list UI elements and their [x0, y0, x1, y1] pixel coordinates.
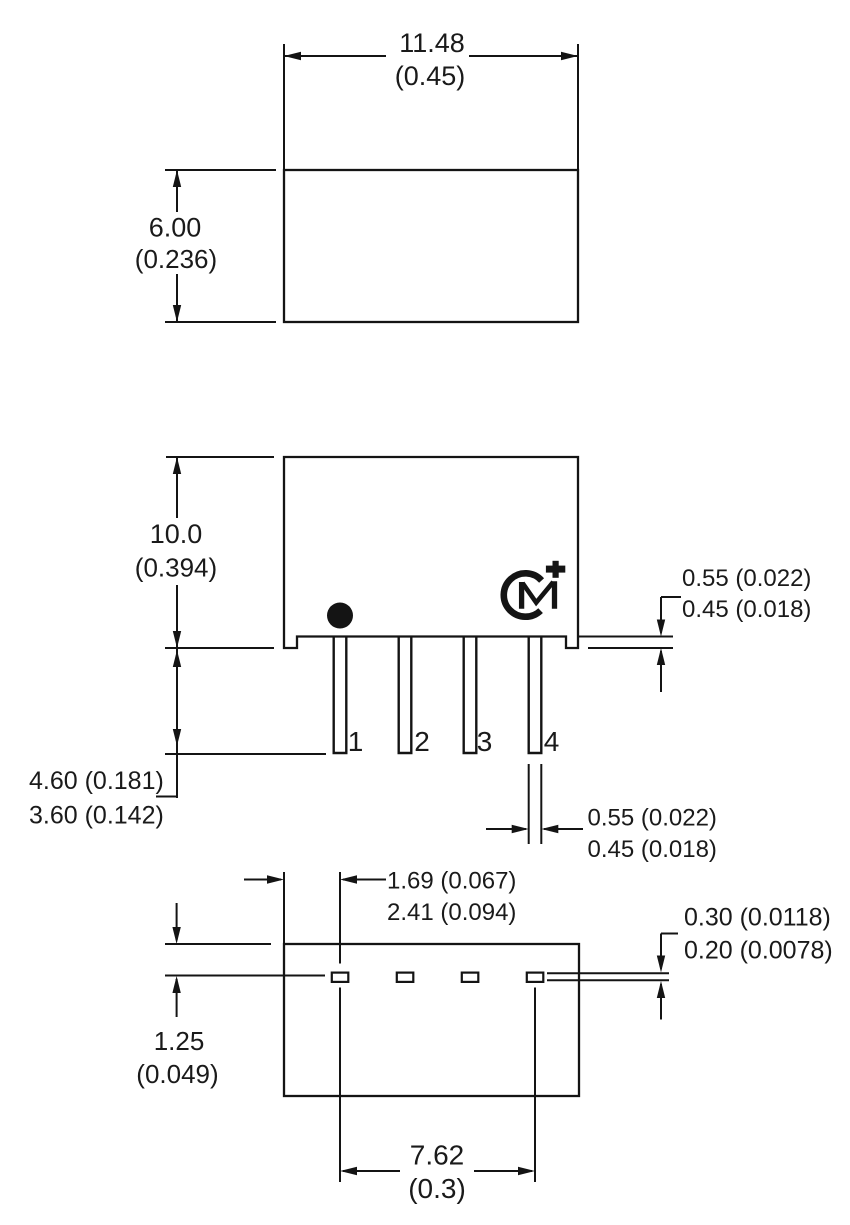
arrowhead 7.62 left — [340, 1167, 357, 1175]
arrowhead 4.60 up at seating line — [173, 650, 181, 667]
arrowhead 6.00 down — [173, 305, 181, 322]
svg-text:0.20 (0.0078): 0.20 (0.0078) — [684, 937, 833, 965]
extension line 10.0 top — [166, 456, 274, 458]
arrowhead 6.00 up — [173, 170, 181, 187]
extension line pin4 width left — [528, 764, 530, 844]
svg-text:4: 4 — [544, 726, 560, 757]
svg-text:4.60 (0.181): 4.60 (0.181) — [29, 767, 164, 795]
standoff up arrow — [660, 651, 662, 692]
1.25 up arrow — [176, 979, 178, 1017]
svg-text:0.45 (0.018): 0.45 (0.018) — [588, 836, 717, 863]
front view body outline — [284, 457, 578, 648]
arrowhead 7.62 right — [518, 1167, 535, 1175]
0.30 up arrow — [660, 984, 662, 1020]
extension line 6.00 bottom — [165, 321, 276, 323]
svg-text:3.60 (0.142): 3.60 (0.142) — [29, 802, 164, 830]
svg-text:(0.394): (0.394) — [135, 553, 217, 583]
1.69 dim right-pointing arrow — [244, 879, 281, 881]
pin 2 front — [399, 637, 412, 754]
dimension line 11.48 — [284, 55, 578, 57]
svg-text:0.55 (0.022): 0.55 (0.022) — [588, 805, 717, 832]
svg-text:3: 3 — [477, 726, 493, 757]
arrowhead 11.48 right — [561, 52, 578, 60]
dimension line 10.0 — [176, 457, 178, 648]
murata logo — [504, 561, 566, 617]
pin seating line left — [165, 975, 325, 977]
svg-text:11.48: 11.48 — [399, 28, 465, 58]
svg-text:1.69 (0.067): 1.69 (0.067) — [387, 868, 516, 895]
top view body outline — [284, 170, 578, 322]
extension line 11.48 left — [283, 44, 285, 170]
standoff leader tick — [661, 596, 681, 598]
arrowhead 4.60 down — [173, 729, 181, 746]
extension line standoff lower right — [588, 647, 673, 649]
dimension texts — [135, 28, 465, 583]
dimension line 4.60 pin length — [176, 648, 178, 798]
logo C ring — [504, 573, 542, 616]
extension line 1.25 top — [165, 943, 271, 945]
0.30 down arrow — [660, 934, 662, 970]
svg-text:1: 1 — [348, 726, 364, 757]
logo M — [522, 581, 555, 609]
svg-text:(0.3): (0.3) — [408, 1173, 466, 1204]
pin 4 bottom cross-section — [527, 973, 544, 982]
body edge extension above bottom view — [283, 872, 285, 944]
svg-text:0.45 (0.018): 0.45 (0.018) — [682, 596, 811, 623]
pin 4 centerline — [534, 988, 536, 1183]
0.30 leader tick — [661, 933, 678, 935]
svg-text:(0.236): (0.236) — [135, 244, 217, 274]
svg-text:2.41 (0.094): 2.41 (0.094) — [387, 899, 516, 926]
svg-text:7.62: 7.62 — [410, 1140, 465, 1171]
svg-text:(0.049): (0.049) — [136, 1059, 218, 1089]
svg-text:2: 2 — [414, 726, 430, 757]
dimension line 6.00 — [176, 170, 178, 322]
pin 2 bottom cross-section — [397, 973, 414, 982]
pin 1 polarity dot — [327, 603, 353, 629]
logo plus horizontal bar — [546, 566, 565, 573]
svg-text:1.25: 1.25 — [154, 1026, 205, 1056]
extension line 11.48 right — [577, 44, 579, 170]
pin 1 centerline — [339, 872, 341, 1182]
svg-text:(0.45): (0.45) — [395, 61, 466, 91]
logo plus vertical bar — [553, 561, 559, 578]
pin thickness lower line right — [547, 979, 669, 981]
pin 3 bottom cross-section — [462, 973, 479, 982]
pin width left arrow — [486, 828, 526, 830]
1.25 down arrow — [176, 903, 178, 940]
extension line pin4 width right — [540, 764, 542, 844]
leader 4.60 — [156, 796, 177, 798]
arrowhead 10.0 down — [173, 631, 181, 648]
pin 1 front — [334, 637, 347, 754]
arrowhead 11.48 left — [284, 52, 301, 60]
standoff down arrow — [660, 597, 662, 633]
bottom view body outline — [284, 944, 579, 1096]
pin 3 front — [464, 637, 477, 754]
pin 4 front — [529, 637, 542, 754]
pin thickness upper line right — [547, 972, 669, 974]
extension line standoff upper right — [578, 636, 673, 638]
svg-text:6.00: 6.00 — [149, 213, 202, 243]
dimension line 7.62 — [343, 1170, 532, 1172]
svg-text:0.55 (0.022): 0.55 (0.022) — [682, 565, 811, 592]
pin width right arrow — [544, 828, 583, 830]
extension line 6.00 top — [165, 169, 276, 171]
pin 1 bottom cross-section — [332, 973, 349, 982]
extension line seating plane left — [165, 647, 274, 649]
1.69 dim left-pointing arrow — [343, 879, 386, 881]
svg-text:10.0: 10.0 — [150, 519, 203, 549]
arrowhead 10.0 up — [173, 457, 181, 474]
svg-text:0.30 (0.0118): 0.30 (0.0118) — [684, 904, 831, 932]
extension line pin bottom — [165, 753, 326, 755]
